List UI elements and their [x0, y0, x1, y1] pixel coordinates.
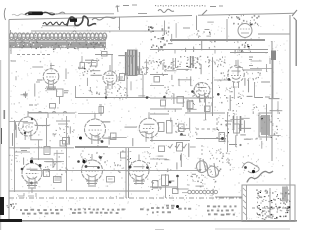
tube V1: [43, 63, 59, 89]
component cluster: [205, 165, 212, 173]
resistor R8: [187, 101, 193, 109]
capacitor C1: [23, 92, 28, 99]
junction: [105, 96, 107, 98]
wire: [75, 86, 77, 98]
wire stub from top border: [196, 16, 198, 31]
wire: [150, 186, 178, 188]
wire mesh bottom section: [153, 174, 213, 196]
wire: [105, 86, 107, 98]
perforation dots: [155, 5, 206, 7]
resistor R7: [177, 97, 184, 104]
wire stub from top border: [119, 17, 121, 31]
component cluster: [151, 59, 167, 76]
component cluster: [184, 56, 201, 71]
wire: [150, 108, 182, 110]
wire: [266, 104, 268, 140]
component cluster: [253, 104, 259, 111]
wire: [65, 69, 67, 80]
check marks row: [168, 144, 187, 148]
resistor R15: [177, 143, 183, 152]
label +20: [29, 104, 37, 106]
capacitor C6: [159, 146, 165, 152]
component cluster: [120, 150, 132, 168]
wire: [9, 121, 28, 123]
bus wire AVC: [9, 147, 150, 149]
wire (heavy): [75, 146, 108, 148]
oscillator coil scribble: [148, 26, 170, 51]
wire: [234, 116, 241, 136]
component cluster: [80, 151, 92, 162]
parts list text line 4: [166, 205, 191, 210]
tube V11 (oscillator): [238, 24, 252, 38]
label dashes: [255, 96, 270, 99]
component cluster: [234, 39, 252, 53]
capacitor C2: [80, 56, 85, 69]
resistor R10: [44, 147, 50, 155]
wire: [44, 161, 64, 163]
wire: [14, 120, 16, 192]
pencil dashes top-left: [123, 4, 137, 7]
wire: [205, 96, 207, 120]
parts table right: [207, 205, 237, 215]
component cluster: [141, 60, 151, 70]
grid capacitor C11: [120, 74, 125, 81]
capacitor C4: [60, 141, 66, 147]
resistor R9: [205, 106, 211, 112]
socket hatch below V1: [45, 87, 57, 92]
tube V10: [129, 155, 150, 185]
component cluster: [150, 158, 159, 171]
label dashes: [36, 80, 43, 82]
wire: [201, 145, 203, 157]
resistor R3: [92, 58, 100, 67]
junction dot: [180, 133, 183, 136]
wire mesh output section: [230, 117, 281, 149]
tube V6: [79, 113, 106, 144]
component cluster: [59, 163, 68, 175]
component cluster: [116, 84, 128, 99]
junction dot: [227, 78, 230, 81]
wire: [56, 121, 70, 124]
wire: [126, 75, 128, 98]
wire mesh detector section: [163, 63, 224, 112]
slash mark: [202, 10, 207, 15]
wire: [227, 112, 229, 152]
wire: [38, 140, 40, 160]
wire mesh audio2 section: [94, 122, 148, 146]
component cluster: [89, 87, 99, 95]
wire: [137, 75, 143, 98]
wire: [66, 116, 68, 191]
bus wire: [126, 148, 129, 198]
label P: [249, 57, 253, 66]
tube V4: [228, 60, 245, 88]
inset detail box: [242, 185, 295, 222]
wire mesh audio1 section: [13, 122, 71, 165]
ink smudge over title: [25, 12, 55, 16]
wire: [215, 196, 242, 198]
output transformer T2: [256, 110, 280, 141]
tube socket V10: [133, 181, 145, 184]
terminal ticks: [11, 30, 77, 54]
scribble loop A: [196, 159, 207, 173]
bus wire B+: [30, 170, 200, 172]
IF transformer T1: [125, 50, 149, 76]
wire: [271, 41, 273, 161]
resistor R5: [154, 77, 160, 83]
component cluster: [228, 109, 237, 116]
component cluster: [219, 73, 229, 104]
ruled line: [56, 13, 114, 15]
wire: [216, 118, 218, 130]
component cluster: [229, 87, 244, 106]
component cluster: [217, 59, 226, 67]
wire: [185, 112, 225, 114]
wire: [150, 97, 212, 99]
wire: [28, 112, 75, 114]
wire mesh converter section: [230, 60, 282, 114]
component cluster: [197, 30, 216, 48]
component cluster: [246, 72, 260, 83]
wire: [46, 118, 48, 146]
tube V5: [19, 111, 38, 140]
wire: [150, 140, 190, 142]
grid cap wire V5: [28, 113, 48, 119]
junction dot: [163, 96, 166, 99]
handwritten signature: [67, 16, 96, 26]
pencil dash: [138, 13, 147, 15]
component cluster: [63, 126, 74, 134]
component cluster: [104, 89, 112, 96]
parts list text line 2: [70, 208, 125, 214]
wire: [258, 33, 290, 35]
wire: [272, 60, 274, 98]
capacitor C7: [234, 124, 240, 133]
component cluster: [53, 127, 61, 136]
inset circuit cluster: [252, 187, 290, 221]
wire: [165, 174, 167, 198]
electrolytic capacitor C8: [54, 177, 62, 183]
component cluster: [175, 119, 187, 133]
wire: [191, 56, 194, 68]
wire: [17, 54, 113, 76]
grid cap tick V1: [50, 65, 55, 67]
wire: [254, 82, 256, 98]
resistor R20: [162, 175, 169, 186]
wire: [150, 50, 268, 54]
component cluster: [188, 128, 197, 138]
tube V8: [21, 157, 42, 187]
component cluster: [10, 151, 19, 162]
bus wire heater: [9, 190, 150, 192]
wire: [78, 113, 103, 115]
component cluster: [205, 56, 226, 67]
wire: [150, 85, 164, 87]
label dashes: [229, 144, 242, 146]
tube V7: [139, 112, 159, 142]
component cluster: [142, 151, 151, 169]
junction: [146, 96, 149, 99]
wire: [170, 39, 265, 41]
label dashes: [20, 148, 30, 151]
parts list text line 3: [140, 207, 174, 214]
wire: [212, 58, 214, 116]
resistor R14: [179, 124, 185, 132]
pencil dashes: [11, 60, 16, 62]
wire: [75, 97, 150, 99]
resistor R6: [161, 100, 166, 106]
resistor R4: [99, 104, 104, 116]
wire mesh left section: [16, 67, 43, 97]
label R1 value: [64, 91, 69, 93]
wire mesh osc section: [158, 21, 222, 53]
handwritten model number: [42, 22, 79, 26]
junction dot: [191, 90, 194, 93]
pencil dashes: [31, 28, 190, 31]
junction dot: [217, 93, 220, 96]
coil winding chain L2 (lower row): [9, 41, 106, 50]
junction dot: [169, 181, 172, 184]
handwritten note: [247, 171, 273, 182]
bypass capacitor C12: [63, 138, 70, 145]
tube V2: [103, 65, 117, 89]
tube socket V8: [26, 183, 38, 193]
tick mark above border: [116, 5, 120, 12]
component cluster: [45, 165, 51, 173]
coil winding chain L1 (upper row): [9, 33, 107, 42]
wire: [246, 138, 264, 140]
wire: [14, 151, 30, 153]
wire: [230, 52, 268, 54]
resistor R17: [44, 170, 50, 177]
stamped figure number: [7, 204, 17, 209]
component cluster: [165, 85, 174, 96]
wire: [150, 158, 202, 173]
junction dot: [97, 166, 100, 169]
component cluster: [209, 150, 217, 159]
margin marks: [4, 110, 6, 119]
tube socket V9: [86, 181, 98, 186]
resistor R11: [121, 152, 127, 158]
wire: [214, 79, 229, 81]
capacitor C9: [173, 189, 179, 194]
component cluster: [151, 178, 162, 191]
wire: [250, 64, 272, 72]
scribble loop B: [207, 163, 218, 177]
resistor R18: [107, 177, 115, 183]
wire: [150, 74, 168, 76]
handwritten note line 2: [92, 17, 116, 20]
component cluster: [78, 62, 95, 76]
resistor R13: [167, 121, 173, 134]
tube V9: [82, 154, 103, 185]
handwritten tube type label: [158, 9, 174, 12]
resistor R2: [50, 104, 56, 109]
junction dot: [77, 160, 80, 163]
wire: [196, 133, 226, 139]
reference marks: [18, 193, 36, 197]
handwritten note line 1: [12, 12, 65, 16]
parts list text line 1: [20, 209, 63, 215]
plate choke: [271, 51, 276, 61]
wire: [244, 69, 262, 71]
component cluster: [96, 152, 106, 163]
alignment scribble: [242, 157, 259, 174]
component cluster: [226, 151, 231, 170]
resistor R12: [159, 123, 165, 132]
component cluster: [159, 56, 181, 69]
component cluster: [106, 162, 120, 172]
wire mesh IF section: [85, 56, 148, 96]
wire: [269, 58, 271, 64]
resistor R1: [57, 89, 64, 104]
wire: [150, 113, 169, 115]
wire mesh audio3 section: [158, 118, 196, 172]
wire: [173, 58, 176, 70]
capacitor C5: [111, 133, 117, 140]
wire: [30, 159, 53, 168]
label dashes: [226, 121, 232, 124]
padder trimmer scribble: [228, 15, 259, 26]
capacitor C3: [118, 73, 128, 83]
coupling capacitor C10: [102, 52, 108, 57]
wire: [226, 19, 228, 42]
component cluster: [216, 117, 229, 172]
tube socket diagram: [187, 174, 217, 194]
resistor R19: [153, 181, 159, 189]
faint line below border: [155, 228, 290, 231]
junction dot: [221, 137, 224, 140]
tube V3: [191, 79, 213, 105]
pencil dashes top-right: [210, 5, 223, 8]
junction dot: [176, 175, 179, 178]
component cluster: [53, 155, 60, 168]
resistor R16: [219, 133, 225, 142]
wire: [196, 128, 216, 130]
wire: [56, 150, 58, 170]
